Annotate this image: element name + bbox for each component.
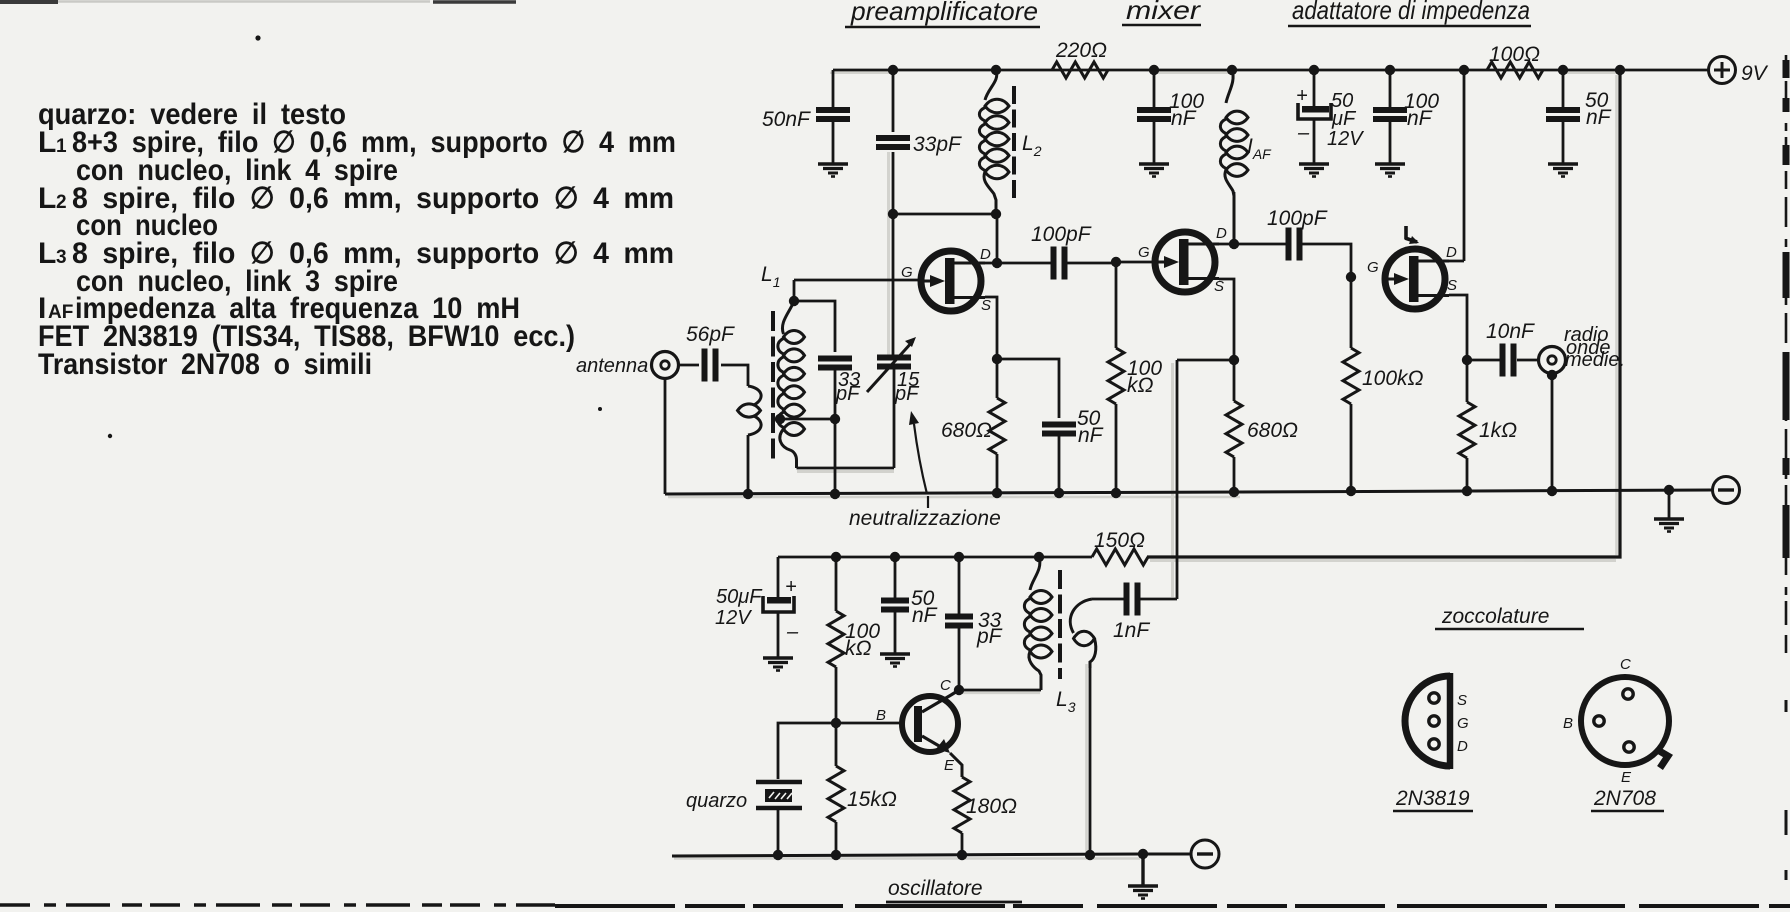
svg-text:Transistor 2N708 o simili: Transistor 2N708 o simili (38, 348, 372, 381)
svg-text:zoccolature: zoccolature (1441, 605, 1549, 628)
svg-text:680Ω: 680Ω (1247, 419, 1298, 442)
wire 33pF tank to tap (775, 369, 840, 494)
antenna connector (576, 352, 679, 379)
ground below 50uF oscillator (763, 658, 793, 671)
capacitor 50uF electrolytic main (1296, 70, 1364, 164)
resistor 680 ohm mixer source (1226, 360, 1298, 492)
svg-text:1nF: 1nF (1113, 619, 1150, 642)
terminal +9V (1709, 57, 1769, 86)
core line L3 (1058, 570, 1062, 679)
label L3 (1056, 688, 1076, 715)
scan ghosting (668, 73, 1618, 859)
ground below 50uF main (1299, 164, 1329, 177)
wire L3 secondary to bottom line (1089, 662, 1092, 855)
capacitor 33pF oscillator (945, 557, 1003, 690)
wire FET1 drain (985, 214, 1002, 268)
resistor 680 ohm FET1 source (941, 359, 1005, 493)
wire FET1 source (985, 297, 1002, 364)
svg-text:180Ω: 180Ω (966, 795, 1017, 818)
svg-text:56pF: 56pF (686, 323, 735, 346)
wire antenna shield down (664, 378, 667, 494)
svg-text:S: S (981, 297, 991, 314)
svg-text:quarzo: quarzo (686, 790, 747, 812)
svg-text:pF: pF (976, 625, 1003, 648)
package outline 2N3819 (1405, 673, 1469, 769)
svg-text:D: D (1457, 738, 1468, 755)
svg-text:12V: 12V (715, 607, 752, 629)
svg-text:G: G (1457, 715, 1469, 732)
svg-text:kΩ: kΩ (1127, 374, 1154, 397)
svg-text:kΩ: kΩ (845, 637, 872, 660)
svg-text:oscillatore: oscillatore (888, 877, 983, 900)
svg-text:nF: nF (1407, 107, 1433, 130)
svg-text:L: L (38, 237, 56, 270)
label IAF (1247, 135, 1272, 162)
svg-text:220Ω: 220Ω (1055, 39, 1107, 62)
svg-text:15kΩ: 15kΩ (847, 788, 897, 811)
svg-text:pF: pF (835, 383, 861, 405)
ground below 100nF adattatore (1375, 164, 1405, 177)
node L1 top junction (789, 280, 799, 306)
svg-text:antenna: antenna (576, 355, 648, 377)
ink specks (108, 35, 602, 438)
svg-text:pF: pF (894, 383, 920, 405)
svg-text:10nF: 10nF (1486, 320, 1535, 343)
svg-text:D: D (1446, 244, 1457, 261)
svg-text:100Ω: 100Ω (1489, 43, 1540, 66)
capacitor 33pF neutralization (876, 70, 962, 356)
svg-text:33pF: 33pF (913, 133, 962, 156)
transistor Q1 2N708 oscillator (876, 677, 962, 777)
wire link coil to ground bus (747, 435, 750, 494)
svg-text:μF: μF (1331, 108, 1357, 130)
svg-text:nF: nF (912, 604, 938, 627)
svg-text:C: C (1620, 656, 1631, 673)
svg-text:–: – (786, 621, 799, 643)
transistor FET3 2N3819 source follower (1367, 244, 1457, 309)
svg-text:D: D (980, 246, 991, 263)
ground below 50nF left (818, 164, 848, 177)
svg-text:S: S (1447, 277, 1457, 294)
wire quarzo to bottom line (777, 810, 780, 855)
resistor 100k oscillator (828, 557, 880, 723)
svg-text:680Ω: 680Ω (941, 419, 992, 442)
section header preamplificatore (845, 0, 1040, 27)
label zoccolature (1435, 605, 1584, 629)
label L2 (1022, 132, 1042, 159)
wire FET2 source (1219, 279, 1239, 365)
svg-text:2: 2 (56, 192, 67, 213)
resistor 220 ohm (1052, 39, 1108, 78)
capacitor 100pF coupling preamp-mixer (997, 223, 1116, 280)
svg-text:100pF: 100pF (1031, 223, 1092, 246)
svg-text:medie.: medie. (1565, 349, 1625, 371)
ground below 100nF mixer (1139, 164, 1169, 177)
scan artifact bottom edge (0, 905, 1790, 906)
ground below 50nF right (1548, 164, 1578, 177)
svg-text:L: L (38, 126, 56, 159)
capacitor 100nF adattatore (1373, 70, 1439, 164)
svg-text:adattatore di impedenza: adattatore di impedenza (1292, 0, 1530, 25)
label neutralizzazione with arrow (849, 411, 1001, 530)
svg-text:2N708: 2N708 (1593, 787, 1656, 810)
ink mark above FET3 (1405, 226, 1419, 244)
svg-text:+: + (785, 576, 797, 598)
wire oscillator injection to FET2 source (1177, 360, 1234, 599)
svg-text:G: G (1367, 259, 1379, 276)
svg-text:neutralizzazione: neutralizzazione (849, 507, 1001, 530)
svg-text:50nF: 50nF (762, 108, 811, 131)
svg-text:12V: 12V (1327, 128, 1364, 150)
capacitor 50nF decoupling left (762, 70, 850, 164)
svg-text:3: 3 (56, 247, 67, 268)
capacitor 10nF output (1467, 320, 1539, 377)
capacitor 33pF tank (818, 359, 861, 406)
svg-text:B: B (876, 707, 886, 724)
core line L2 (1012, 86, 1016, 198)
core line L1 (771, 311, 775, 461)
node junction 33pF / L2 bottom link (888, 209, 1001, 219)
label 2N708 (1591, 787, 1664, 811)
inductor IAF choke (1220, 70, 1248, 244)
crystal quarzo (686, 782, 802, 812)
inductor L1 link winding (738, 386, 762, 435)
inductor L1 secondary (778, 301, 805, 468)
resistor 150 ohm (1092, 529, 1148, 565)
label oscillatore (886, 877, 1022, 902)
transistor FET1 2N3819 preamplifier (901, 246, 991, 314)
svg-text:nF: nF (1078, 424, 1104, 447)
wire source to bypass cap (997, 359, 1059, 418)
resistor 1k FET3 source (1459, 360, 1517, 491)
node oscillator base (831, 718, 902, 728)
node mixer gate (1111, 257, 1158, 267)
capacitor 100pF coupling mixer out (1267, 207, 1356, 282)
capacitor 50uF oscillator (715, 557, 799, 658)
svg-text:G: G (901, 264, 913, 281)
scan artifact top edge (0, 0, 516, 3)
svg-text:preamplificatore: preamplificatore (850, 0, 1038, 26)
node collector junction (954, 685, 1041, 695)
wire FET3 source (1449, 295, 1472, 365)
capacitor 15pF variable (867, 337, 920, 405)
resistor 100k mixer gate (1108, 262, 1162, 493)
wire +9V top rail (833, 69, 1708, 72)
terminal minus oscillator (1191, 840, 1219, 868)
svg-text:–: – (1297, 122, 1310, 144)
svg-text:E: E (1621, 769, 1632, 786)
svg-text:S: S (1457, 692, 1467, 709)
inductor L3 secondary (1070, 599, 1096, 668)
capacitor 50nF source bypass (1042, 407, 1104, 493)
wire radio connector to ground bus (1547, 370, 1557, 491)
section header adattatore di impedenza (1288, 0, 1531, 26)
svg-text:S: S (1214, 278, 1224, 295)
notes text block (38, 98, 676, 381)
capacitor 100nF mixer rail (1137, 70, 1204, 164)
svg-text:1: 1 (56, 136, 67, 157)
ground symbol oscillator (1128, 854, 1158, 899)
ground symbol right (1654, 490, 1684, 532)
svg-text:+: + (1296, 85, 1308, 107)
capacitor 56pF (686, 323, 735, 382)
oscillator supply rail (778, 552, 1092, 562)
junction dots on top rail (888, 65, 1625, 75)
svg-text:nF: nF (1171, 107, 1197, 130)
svg-text:E: E (944, 757, 955, 774)
wire FET3 drain to rail (1449, 70, 1464, 261)
wire base to quarzo (778, 723, 836, 779)
section header mixer (1122, 0, 1202, 25)
scan artifact right edge (1785, 55, 1788, 880)
ground below 50nF oscillator (880, 654, 910, 667)
resistor 100 ohm rail (1487, 43, 1543, 78)
inductor L2 (979, 70, 1009, 214)
oscillator bottom line (672, 849, 1190, 860)
svg-text:100kΩ: 100kΩ (1362, 367, 1424, 390)
wire tank bottom (797, 368, 895, 468)
svg-text:50μF: 50μF (716, 586, 763, 608)
svg-text:B: B (1563, 715, 1573, 732)
resistor 15k oscillator (828, 723, 897, 855)
svg-text:nF: nF (1586, 106, 1612, 129)
svg-text:mixer: mixer (1126, 0, 1202, 25)
wire gate line L1 to FET1 (794, 279, 924, 282)
ground bus (665, 485, 1712, 499)
wire L1 top to 33pF tank (794, 301, 835, 352)
wire IAF to FET2 drain (1219, 192, 1286, 249)
svg-text:150Ω: 150Ω (1094, 529, 1145, 552)
svg-text:1kΩ: 1kΩ (1479, 419, 1517, 442)
resistor 180 ohm emitter (954, 777, 1017, 855)
resistor 100k FET3 gate (1343, 277, 1424, 491)
svg-text:L: L (38, 182, 56, 215)
connector radio onde medie (1539, 324, 1626, 374)
label L1 (761, 263, 780, 290)
svg-text:100pF: 100pF (1267, 207, 1328, 230)
capacitor 50nF oscillator (881, 557, 938, 654)
inductor L3 primary (1024, 557, 1052, 690)
wire antenna to 56pF (678, 364, 699, 367)
svg-text:G: G (1138, 244, 1150, 261)
capacitor 50nF right (1546, 70, 1612, 164)
wire 56pF to link coil (721, 365, 748, 386)
svg-text:C: C (940, 677, 951, 694)
svg-text:2N3819: 2N3819 (1395, 787, 1470, 810)
capacitor 1nF oscillator output (1092, 583, 1177, 643)
package outline 2N708 (1563, 656, 1669, 786)
terminal minus right (1713, 477, 1740, 504)
label 2N3819 (1393, 787, 1473, 811)
svg-text:9V: 9V (1741, 62, 1769, 85)
transistor FET2 2N3819 mixer (1138, 225, 1227, 295)
svg-text:D: D (1216, 225, 1227, 242)
wire right rail down to oscillator (1147, 70, 1620, 557)
